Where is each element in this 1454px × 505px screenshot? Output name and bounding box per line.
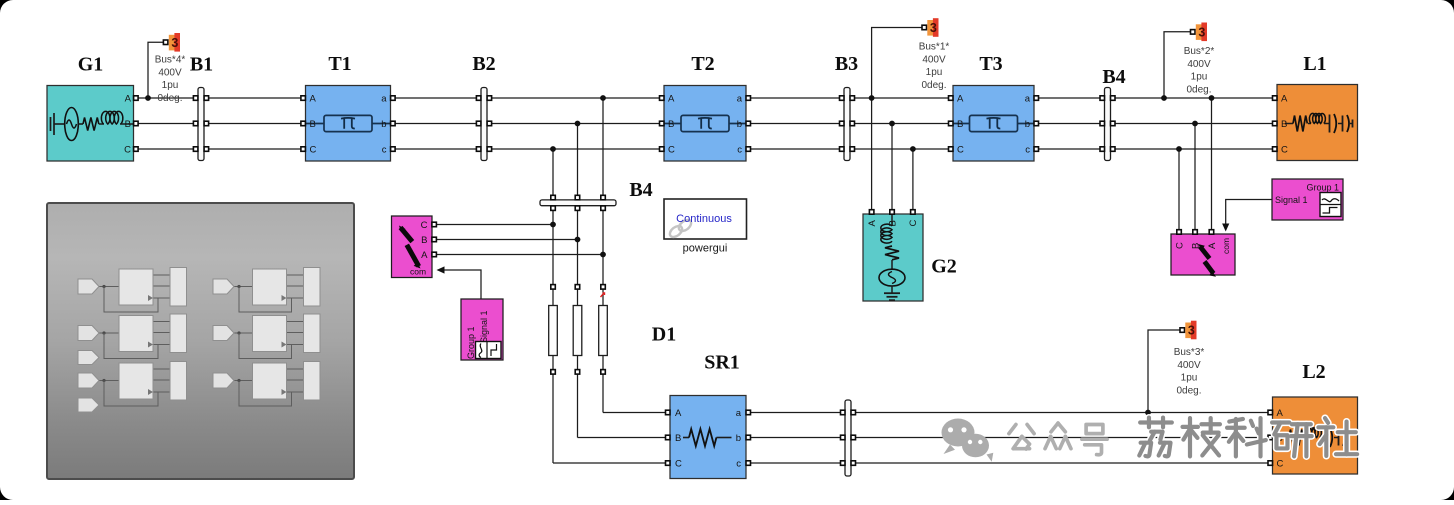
svg-text:0deg.: 0deg. (1176, 385, 1201, 396)
svg-text:C: C (1281, 145, 1288, 156)
svg-text:B3: B3 (835, 53, 858, 75)
svg-text:G2: G2 (931, 256, 957, 278)
svg-text:a: a (736, 408, 742, 419)
svg-text:3: 3 (930, 21, 937, 35)
svg-text:0deg.: 0deg. (157, 93, 182, 104)
svg-text:Signal 1: Signal 1 (1275, 195, 1308, 205)
svg-text:G1: G1 (78, 54, 104, 76)
svg-text:c: c (737, 145, 742, 156)
svg-text:T1: T1 (328, 53, 351, 75)
svg-text:400V: 400V (1177, 360, 1201, 371)
svg-text:A: A (310, 94, 317, 105)
svg-text:A: A (421, 250, 428, 261)
svg-text:B: B (421, 235, 427, 246)
svg-text:3: 3 (171, 36, 178, 50)
svg-text:C: C (908, 220, 919, 227)
svg-text:B: B (310, 119, 316, 130)
svg-text:powergui: powergui (683, 243, 728, 255)
svg-text:b: b (737, 119, 742, 130)
svg-text:C: C (421, 220, 428, 231)
svg-text:A: A (957, 94, 964, 105)
svg-text:3: 3 (1198, 26, 1205, 40)
svg-text:B: B (957, 119, 963, 130)
svg-text:b: b (381, 119, 386, 130)
svg-text:B2: B2 (472, 53, 495, 75)
svg-text:400V: 400V (1187, 59, 1211, 70)
svg-text:C: C (668, 145, 675, 156)
svg-text:B: B (887, 220, 898, 226)
svg-text:C: C (1277, 459, 1284, 470)
svg-text:L2: L2 (1302, 361, 1325, 383)
svg-text:Bus*4*: Bus*4* (155, 55, 186, 66)
svg-text:0deg.: 0deg. (1186, 84, 1211, 95)
svg-text:400V: 400V (922, 54, 946, 65)
svg-text:A: A (125, 94, 132, 105)
svg-text:SR1: SR1 (704, 352, 740, 374)
svg-text:B: B (1281, 119, 1287, 130)
svg-text:a: a (737, 94, 743, 105)
svg-text:B: B (125, 119, 131, 130)
svg-text:b: b (736, 433, 741, 444)
svg-text:T2: T2 (691, 53, 714, 75)
svg-text:A: A (1277, 408, 1284, 419)
svg-text:0deg.: 0deg. (921, 80, 946, 91)
svg-text:B: B (668, 119, 674, 130)
svg-text:1pu: 1pu (1191, 72, 1208, 83)
svg-text:A: A (1281, 94, 1288, 105)
svg-text:com: com (410, 267, 426, 277)
svg-text:A: A (1207, 242, 1218, 249)
svg-text:1pu: 1pu (1181, 373, 1198, 384)
svg-text:Continuous: Continuous (676, 213, 732, 225)
svg-text:com: com (1221, 238, 1231, 254)
svg-text:C: C (124, 145, 131, 156)
svg-text:a: a (1025, 94, 1031, 105)
svg-text:b: b (1025, 119, 1030, 130)
svg-text:a: a (381, 94, 387, 105)
svg-text:c: c (1025, 145, 1030, 156)
svg-text:C: C (957, 145, 964, 156)
svg-text:L1: L1 (1303, 53, 1326, 75)
svg-text:B: B (675, 433, 681, 444)
svg-text:B: B (1190, 243, 1201, 249)
svg-text:Bus*3*: Bus*3* (1174, 347, 1205, 358)
svg-text:B4: B4 (1102, 66, 1125, 88)
svg-text:B1: B1 (190, 54, 213, 76)
svg-text:Signal 1: Signal 1 (479, 310, 489, 343)
svg-text:Bus*1*: Bus*1* (919, 42, 950, 53)
svg-text:C: C (675, 459, 682, 470)
svg-text:A: A (867, 220, 878, 227)
svg-text:A: A (668, 94, 675, 105)
svg-text:B4: B4 (629, 179, 652, 201)
svg-text:3: 3 (1188, 324, 1195, 338)
svg-text:400V: 400V (158, 67, 182, 78)
svg-text:C: C (310, 145, 317, 156)
svg-text:Group 1: Group 1 (466, 326, 476, 359)
svg-text:c: c (736, 459, 741, 470)
svg-text:A: A (675, 408, 682, 419)
svg-text:D1: D1 (652, 324, 676, 346)
svg-text:c: c (382, 145, 387, 156)
svg-text:1pu: 1pu (926, 67, 943, 78)
svg-text:T3: T3 (979, 53, 1002, 75)
svg-text:Bus*2*: Bus*2* (1184, 46, 1215, 57)
svg-text:C: C (1174, 242, 1185, 249)
svg-text:Group 1: Group 1 (1306, 183, 1339, 193)
svg-text:1pu: 1pu (162, 80, 179, 91)
